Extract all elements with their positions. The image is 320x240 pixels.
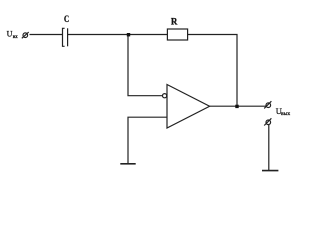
svg-text:C: C xyxy=(64,14,69,24)
svg-text:вых: вых xyxy=(281,111,290,117)
svg-text:R: R xyxy=(171,17,178,27)
svg-text:U: U xyxy=(7,30,13,39)
svg-text:вх: вх xyxy=(13,34,18,40)
